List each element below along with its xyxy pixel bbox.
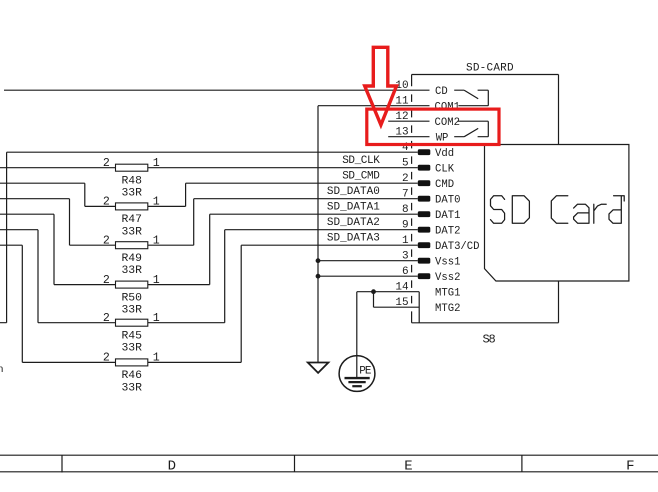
svg-text:14: 14 [395, 282, 409, 294]
svg-text:PE: PE [359, 365, 372, 377]
svg-text:COM2: COM2 [435, 117, 460, 129]
svg-text:1: 1 [153, 235, 160, 248]
svg-text:DAT2: DAT2 [435, 226, 460, 238]
svg-text:33R: 33R [121, 305, 142, 317]
svg-text:R47: R47 [121, 214, 142, 226]
svg-text:E: E [404, 459, 412, 475]
svg-text:S8: S8 [483, 333, 496, 347]
svg-text:33R: 33R [121, 265, 142, 277]
svg-text:D: D [168, 459, 176, 475]
svg-text:Vdd: Vdd [435, 148, 454, 160]
svg-text:Vss1: Vss1 [435, 257, 460, 269]
svg-text:1: 1 [153, 157, 160, 170]
svg-text:13: 13 [395, 127, 408, 139]
svg-text:DAT0: DAT0 [435, 195, 460, 207]
svg-text:SD_CLK: SD_CLK [342, 155, 380, 167]
svg-text:DAT3/CD: DAT3/CD [435, 241, 480, 253]
svg-text:2: 2 [103, 235, 110, 248]
svg-text:33R: 33R [121, 382, 142, 394]
svg-text:33R: 33R [121, 226, 142, 238]
svg-text:2: 2 [103, 196, 110, 209]
svg-text:11: 11 [395, 96, 409, 108]
svg-text:MTG2: MTG2 [435, 303, 460, 315]
svg-text:33R: 33R [121, 188, 142, 200]
svg-text:R48: R48 [121, 175, 142, 187]
svg-text:CMD: CMD [435, 179, 454, 191]
svg-text:MTG1: MTG1 [435, 288, 460, 300]
svg-text:WP: WP [436, 133, 449, 145]
svg-text:9: 9 [402, 220, 409, 232]
svg-text:1: 1 [153, 196, 160, 209]
svg-text:CLK: CLK [435, 164, 455, 176]
svg-text:2: 2 [103, 274, 110, 287]
svg-text:12: 12 [395, 111, 408, 123]
svg-text:SD_CMD: SD_CMD [342, 171, 380, 183]
svg-text:SD_DATA3: SD_DATA3 [327, 233, 380, 245]
svg-text:COM1: COM1 [435, 102, 460, 114]
svg-text:SD_DATA1: SD_DATA1 [327, 202, 380, 214]
svg-text:R50: R50 [121, 292, 142, 304]
svg-text:3: 3 [402, 251, 409, 263]
svg-text:Vss2: Vss2 [435, 272, 460, 284]
svg-text:1: 1 [153, 274, 160, 287]
svg-text:SD_DATA2: SD_DATA2 [327, 217, 380, 229]
svg-text:SD-CARD: SD-CARD [466, 62, 514, 74]
svg-text:5: 5 [402, 158, 409, 170]
svg-text:SD_DATA0: SD_DATA0 [327, 186, 380, 198]
svg-text:DAT1: DAT1 [435, 210, 460, 222]
svg-text:33R: 33R [121, 343, 142, 355]
svg-text:2: 2 [103, 157, 110, 170]
svg-text:15: 15 [395, 297, 408, 309]
svg-text:2: 2 [103, 312, 110, 325]
svg-text:2: 2 [402, 173, 409, 185]
svg-text:1: 1 [402, 235, 409, 247]
svg-text:6: 6 [402, 266, 409, 278]
svg-text:8: 8 [402, 204, 409, 216]
svg-text:R49: R49 [121, 253, 142, 265]
svg-text:n: n [0, 364, 4, 376]
svg-text:2: 2 [103, 352, 110, 365]
svg-text:7: 7 [402, 189, 409, 201]
svg-text:1: 1 [153, 312, 160, 325]
svg-text:R46: R46 [121, 370, 142, 382]
svg-text:F: F [626, 459, 634, 475]
svg-text:1: 1 [153, 352, 160, 365]
svg-text:CD: CD [435, 86, 448, 98]
svg-text:R45: R45 [121, 330, 142, 342]
